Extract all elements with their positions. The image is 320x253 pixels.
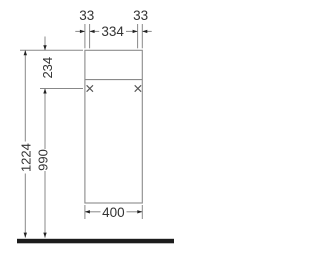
top dimension extension ticks [85,24,142,48]
svg-text:1224: 1224 [19,143,34,172]
1224 dimension line [24,50,26,237]
svg-text:400: 400 [102,205,125,220]
400 arrowheads [85,210,142,213]
mounting hole X left [87,85,93,91]
svg-text:234: 234 [40,57,55,79]
svg-text:334: 334 [101,24,124,39]
top dimension line segments y=31.4 [75,30,151,32]
990 dimension line [44,89,46,238]
1224 arrowheads [24,50,27,237]
400 dimension ticks [85,205,142,219]
top extension line left [20,49,83,51]
hole-level extension line left [40,88,83,90]
svg-text:33: 33 [79,8,94,23]
svg-text:990: 990 [36,149,51,171]
svg-text:33: 33 [133,8,148,23]
floor bar [17,239,174,244]
400 dimension line [85,211,142,213]
990 arrowheads [43,89,46,238]
cabinet outline [85,50,142,203]
234 dimension top arrow [44,37,46,51]
mounting hole X right [135,85,141,91]
divider line [85,79,142,81]
top dimension arrowheads [80,30,147,33]
